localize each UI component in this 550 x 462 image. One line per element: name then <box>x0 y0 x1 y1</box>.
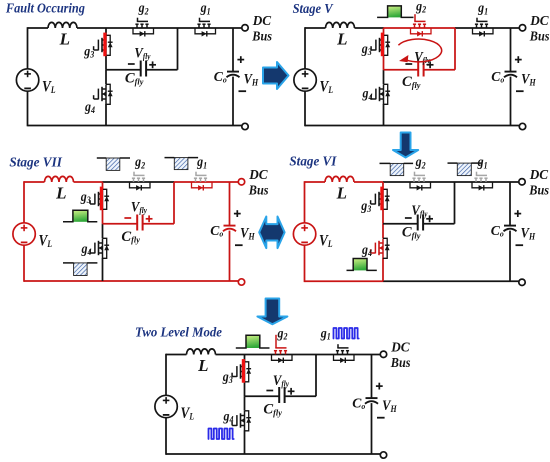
panel1 Fault Occuring: wire drop from g1-g2 node <box>177 28 179 70</box>
panel4 Stage VI: wire top middle segment <box>383 181 455 183</box>
panel5 Two Level Mode: transistor g1 <box>334 344 355 363</box>
svg-text:Bus: Bus <box>390 355 411 370</box>
panel2 Stage V: transistor g2 <box>411 14 432 36</box>
panel2 Stage V: wire branch lower <box>383 70 385 84</box>
panel5 Two Level Mode: C_fly plus sign <box>288 390 295 392</box>
panel2 Stage V: DC bus positive terminal <box>519 25 525 31</box>
svg-text:Two Level Mode: Two Level Mode <box>135 325 222 340</box>
panel5 Two Level Mode: DC bus negative terminal <box>380 452 386 458</box>
panel4 Stage VI: transistor g4 <box>371 238 390 258</box>
panel1 Fault Occuring: inductor L <box>48 22 77 28</box>
panel5 Two Level Mode: wire top middle segment <box>245 354 317 356</box>
panel1 Fault Occuring: wire to flying capacitor <box>106 69 141 71</box>
panel5 Two Level Mode: inductor L <box>187 349 216 355</box>
panel5 Two Level Mode: C_fly minus sign <box>266 390 273 392</box>
panel4 Stage VI: transistor g2 <box>410 172 431 191</box>
panel5: g2 gate pulse (green) <box>247 336 260 348</box>
panel3 Stage VII: wire top-left segment <box>24 181 45 183</box>
panel3 Stage VII: DC bus negative terminal <box>238 279 244 285</box>
svg-text:Bus: Bus <box>528 183 549 198</box>
panel4 Stage VI: transistor g3 (faulted, red bar) <box>371 187 390 211</box>
panel5 Two Level Mode: capacitor C_o <box>366 397 378 399</box>
panel4 Stage VI: C_o minus sign <box>516 244 524 246</box>
panel4 Stage VI: wire to flying capacitor <box>383 223 418 225</box>
panel1 Fault Occuring: C_o minus sign <box>239 90 247 92</box>
svg-text:DC: DC <box>252 13 272 28</box>
panel1 Fault Occuring: wire top-left segment <box>28 27 49 29</box>
panel1 Fault Occuring: wire bottom <box>28 125 107 127</box>
panel4 Stage VI: wire bottom <box>305 280 384 282</box>
panel1 Fault Occuring: capacitor C_o <box>227 71 239 73</box>
svg-text:Bus: Bus <box>248 183 269 198</box>
panel3: g4 gate signal low (hatched) <box>74 263 88 276</box>
panel4 Stage VI: wire top-right segment <box>455 181 520 183</box>
svg-text:L: L <box>197 356 208 375</box>
panel1 Fault Occuring: wire left <box>27 27 29 69</box>
panel1 Fault Occuring: wire top middle segment <box>106 27 178 29</box>
svg-text:Stage V: Stage V <box>293 1 334 16</box>
panel4 Stage VI: C_fly minus sign <box>405 217 412 219</box>
panel5 Two Level Mode: DC bus positive terminal <box>380 351 386 357</box>
panel3: g3 gate pulse (green) <box>73 211 87 222</box>
svg-text:DC: DC <box>529 13 549 28</box>
panel2: g2 gate pulse (green) <box>388 6 401 17</box>
panel5 Two Level Mode: transistor g4 <box>232 411 251 431</box>
panel4 Stage VI: wire branch lower <box>382 224 384 238</box>
svg-text:L: L <box>336 30 347 49</box>
panel5 Two Level Mode: wire branch upper <box>244 355 246 362</box>
panel5 Two Level Mode: wire bottom <box>166 453 245 455</box>
panel1 Fault Occuring: C_o plus sign <box>237 59 244 61</box>
svg-text:Fault Occuring: Fault Occuring <box>5 1 85 16</box>
svg-text:Stage VII: Stage VII <box>9 154 62 169</box>
panel3 Stage VII: wire top-right segment <box>174 181 239 183</box>
panel3 Stage VII: wire right <box>229 182 231 226</box>
panel5: g4 PWM waveform <box>209 429 234 440</box>
panel1 Fault Occuring: wire top-right segment <box>178 27 243 29</box>
panel1 Fault Occuring: voltage source V_L <box>16 69 38 91</box>
panel3: g1 gate signal low (hatched) <box>174 158 188 170</box>
panel4 Stage VI: wire right <box>509 182 511 226</box>
panel2: circulating current arrow <box>398 39 441 62</box>
panel5 Two Level Mode: C_o minus sign <box>377 417 385 419</box>
panel4 Stage VI: DC bus negative terminal <box>519 279 525 285</box>
panel3 Stage VII: capacitor C_o <box>224 225 236 227</box>
panel3 Stage VII: wire branch upper <box>102 182 104 189</box>
panel3 Stage VII: transistor g3 (faulted, red bar) <box>90 187 109 211</box>
panel3 Stage VII: transistor g1 <box>192 172 213 191</box>
panel5 Two Level Mode: voltage source V_L <box>155 395 177 417</box>
panel1 Fault Occuring: C_fly minus sign <box>128 63 135 65</box>
panel3 Stage VII: voltage source V_L <box>13 223 35 245</box>
panel3 Stage VII: wire branch lower <box>102 224 104 238</box>
panel2 Stage V: wire top middle segment <box>384 27 456 29</box>
panel4: g2 gate signal low (hatched) <box>390 163 404 175</box>
panel3 Stage VII: wire left <box>23 181 25 223</box>
panel4 Stage VI: capacitor C_fly <box>417 215 419 231</box>
panel5 Two Level Mode: wire right <box>371 355 373 399</box>
panel4 Stage VI: DC bus positive terminal <box>519 179 525 185</box>
panel2 Stage V: C_fly minus sign <box>405 63 412 65</box>
panel4 Stage VI: C_o plus sign <box>514 213 521 215</box>
panel2 Stage V: transistor g1 <box>473 18 494 37</box>
panel3 Stage VII: wire bottom <box>24 280 103 282</box>
panel3 Stage VII: C_fly minus sign <box>124 217 131 219</box>
panel3 Stage VII: transistor g4 <box>90 238 109 258</box>
panel4 Stage VI: wire left <box>304 181 306 223</box>
panel2 Stage V: transistor g3 (faulted, red bar) <box>371 33 390 57</box>
arrow between Stage VII and Stage VI <box>259 217 284 249</box>
panel5: g1 PWM waveform <box>334 328 359 339</box>
panel3 Stage VII: transistor g2 <box>130 172 151 191</box>
panel2 Stage V: C_fly plus sign <box>427 64 434 66</box>
panel5 Two Level Mode: wire to flying capacitor <box>245 395 280 397</box>
panel1 Fault Occuring: transistor g4 <box>94 84 113 104</box>
panel2 Stage V: wire top-right segment <box>455 27 520 29</box>
panel3 Stage VII: wire to flying capacitor <box>103 223 138 225</box>
panel3 Stage VII: C_fly plus sign <box>146 218 153 220</box>
panel4: g4 gate pulse (green) <box>354 259 367 270</box>
panel3 Stage VII: wire drop from g1-g2 node <box>173 182 175 224</box>
panel4 Stage VI: wire drop from g1-g2 node <box>454 182 456 224</box>
panel3 Stage VII: inductor L <box>45 176 74 182</box>
panel1 Fault Occuring: wire right <box>232 28 234 72</box>
svg-text:Stage VI: Stage VI <box>289 153 337 168</box>
svg-text:Bus: Bus <box>251 29 272 44</box>
panel2 Stage V: capacitor C_fly <box>417 61 419 77</box>
panel1 Fault Occuring: wire branch lower <box>105 70 107 84</box>
panel1 Fault Occuring: DC bus positive terminal <box>242 25 248 31</box>
panel1 Fault Occuring: transistor g3 (faulted, red bar) <box>94 33 113 57</box>
panel3 Stage VII: capacitor C_fly <box>136 215 138 231</box>
panel4 Stage VI: wire branch upper <box>382 182 384 189</box>
svg-text:Bus: Bus <box>529 29 550 44</box>
panel5 Two Level Mode: transistor g2 <box>272 335 293 363</box>
panel2 Stage V: wire bottom <box>305 125 384 127</box>
panel4 Stage VI: transistor g1 <box>472 172 493 191</box>
svg-text:L: L <box>336 184 347 203</box>
panel3 Stage VII: wire top middle segment <box>103 181 175 183</box>
panel2 Stage V: DC bus negative terminal <box>519 123 525 129</box>
panel5 Two Level Mode: wire drop from g1-g2 node <box>315 355 317 397</box>
panel5 Two Level Mode: transistor g3 (faulted, red bar) <box>232 359 251 383</box>
svg-text:L: L <box>59 30 70 49</box>
panel5 Two Level Mode: wire top-right segment <box>316 354 381 356</box>
panel2 Stage V: voltage source V_L <box>294 69 316 91</box>
panel3 Stage VII: C_o minus sign <box>235 244 243 246</box>
panel1 Fault Occuring: C_fly plus sign <box>149 64 156 66</box>
panel5 Two Level Mode: wire left <box>165 354 167 396</box>
panel1 Fault Occuring: DC bus negative terminal <box>242 123 248 129</box>
panel1 Fault Occuring: wire branch upper <box>105 28 107 35</box>
panel5 Two Level Mode: C_o plus sign <box>376 385 383 387</box>
panel5 Two Level Mode: wire branch lower <box>244 396 246 410</box>
panel3 Stage VII: DC bus positive terminal <box>238 179 244 185</box>
svg-text:DC: DC <box>529 167 549 182</box>
panel2 Stage V: C_o minus sign <box>516 90 524 92</box>
panel4 Stage VI: wire top-left segment <box>305 181 326 183</box>
arrow from Fault Occuring to Stage V <box>263 62 289 89</box>
panel4 Stage VI: capacitor C_o <box>504 225 516 227</box>
panel3: g2 gate signal low (hatched) <box>106 158 120 170</box>
arrow from Stage V to Stage VI <box>393 133 418 158</box>
svg-text:DC: DC <box>248 167 268 182</box>
panel2 Stage V: transistor g4 <box>371 84 390 104</box>
panel1 Fault Occuring: transistor g1 <box>195 18 216 37</box>
panel1 Fault Occuring: transistor g2 <box>133 18 154 37</box>
panel2 Stage V: wire branch upper <box>383 28 385 35</box>
panel4 Stage VI: voltage source V_L <box>293 223 315 245</box>
svg-text:L: L <box>55 184 66 203</box>
panel1 Fault Occuring: capacitor C_fly <box>140 61 142 77</box>
panel2 Stage V: inductor L <box>326 22 355 28</box>
svg-text:DC: DC <box>390 339 410 354</box>
panel2 Stage V: capacitor C_o <box>505 71 517 73</box>
panel2 Stage V: wire drop from g1-g2 node <box>454 28 456 70</box>
panel2 Stage V: wire top-left segment <box>305 27 326 29</box>
arrow from middle row to Two Level Mode <box>257 299 287 325</box>
panel2 Stage V: C_o plus sign <box>515 59 522 61</box>
panel2 Stage V: wire right <box>510 28 512 72</box>
panel4 Stage VI: C_fly plus sign <box>426 218 433 220</box>
panel5 Two Level Mode: wire top-left segment <box>166 354 187 356</box>
panel4 Stage VI: inductor L <box>325 176 354 182</box>
panel5 Two Level Mode: capacitor C_fly <box>278 387 280 403</box>
panel3 Stage VII: C_o plus sign <box>234 213 241 215</box>
panel2 Stage V: wire left <box>304 27 306 69</box>
panel2 Stage V: wire to flying capacitor <box>384 69 419 71</box>
panel4: g1 gate signal low (hatched) <box>457 163 471 176</box>
